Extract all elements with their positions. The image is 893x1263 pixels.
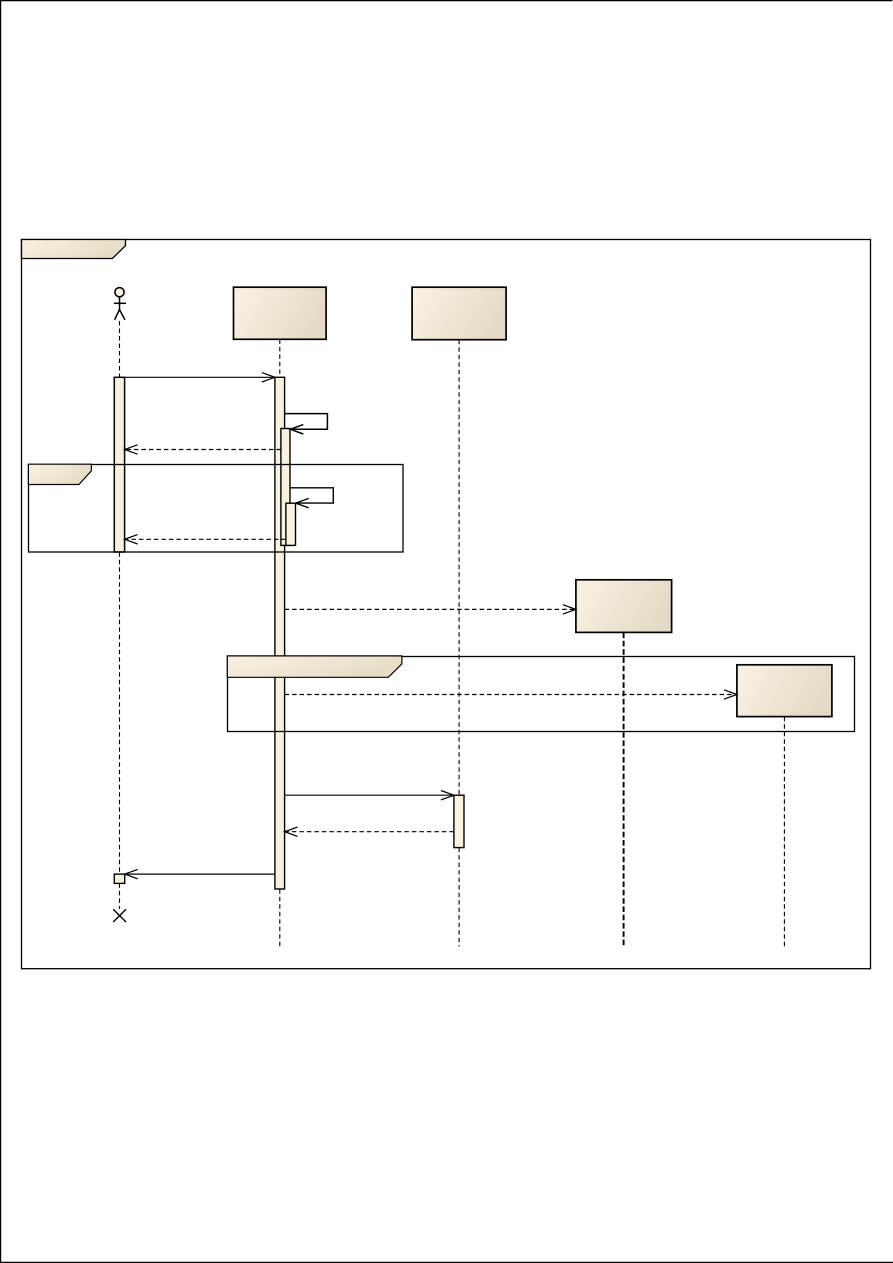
object3 box (created) (576, 580, 672, 633)
sd frame (22, 240, 871, 969)
object4 box (created) (737, 665, 832, 717)
sd frame title pentagon (22, 240, 126, 259)
activation bar object1 C (nested 2) (286, 503, 296, 545)
actor figure (114, 288, 126, 320)
message m5 dashed return 2 to actor (125, 535, 286, 544)
message m6 dashed create object3 (285, 605, 576, 614)
message m3 dashed return object1 to actor (125, 445, 281, 454)
activation bar object2 D (454, 795, 464, 847)
fragment 1 pentagon (28, 464, 91, 484)
message m10 solid final return to actor (125, 869, 275, 878)
combined fragment 2 (228, 657, 855, 732)
object2 box (412, 287, 506, 340)
message m1 solid actor to object1 (125, 373, 275, 382)
activation bar object1 A (main) (275, 377, 285, 889)
message m9 dashed return object2 to object1 (285, 827, 454, 836)
fragment 2 pentagon (227, 656, 402, 677)
activation bar actor (main) (114, 377, 124, 552)
message m7 dashed create object4 (285, 690, 737, 699)
message m2 self-call on object1 (285, 414, 328, 434)
destruction X on actor lifeline (113, 909, 126, 922)
message m8 solid object1 to object2 (285, 791, 454, 800)
lifeline object4 (783, 717, 785, 947)
object1 box (234, 287, 327, 339)
lifeline object2 (458, 340, 460, 947)
activation bar object1 B (nested 1) (281, 429, 290, 546)
actor lifeline (dashed segments) (119, 321, 121, 909)
activation bar actor small (114, 874, 124, 883)
message m4 self-call 2 on object1 (290, 488, 333, 508)
lifeline object3 (bold) (623, 633, 625, 947)
combined fragment 1 (29, 465, 404, 553)
lifeline object1 (279, 339, 281, 946)
